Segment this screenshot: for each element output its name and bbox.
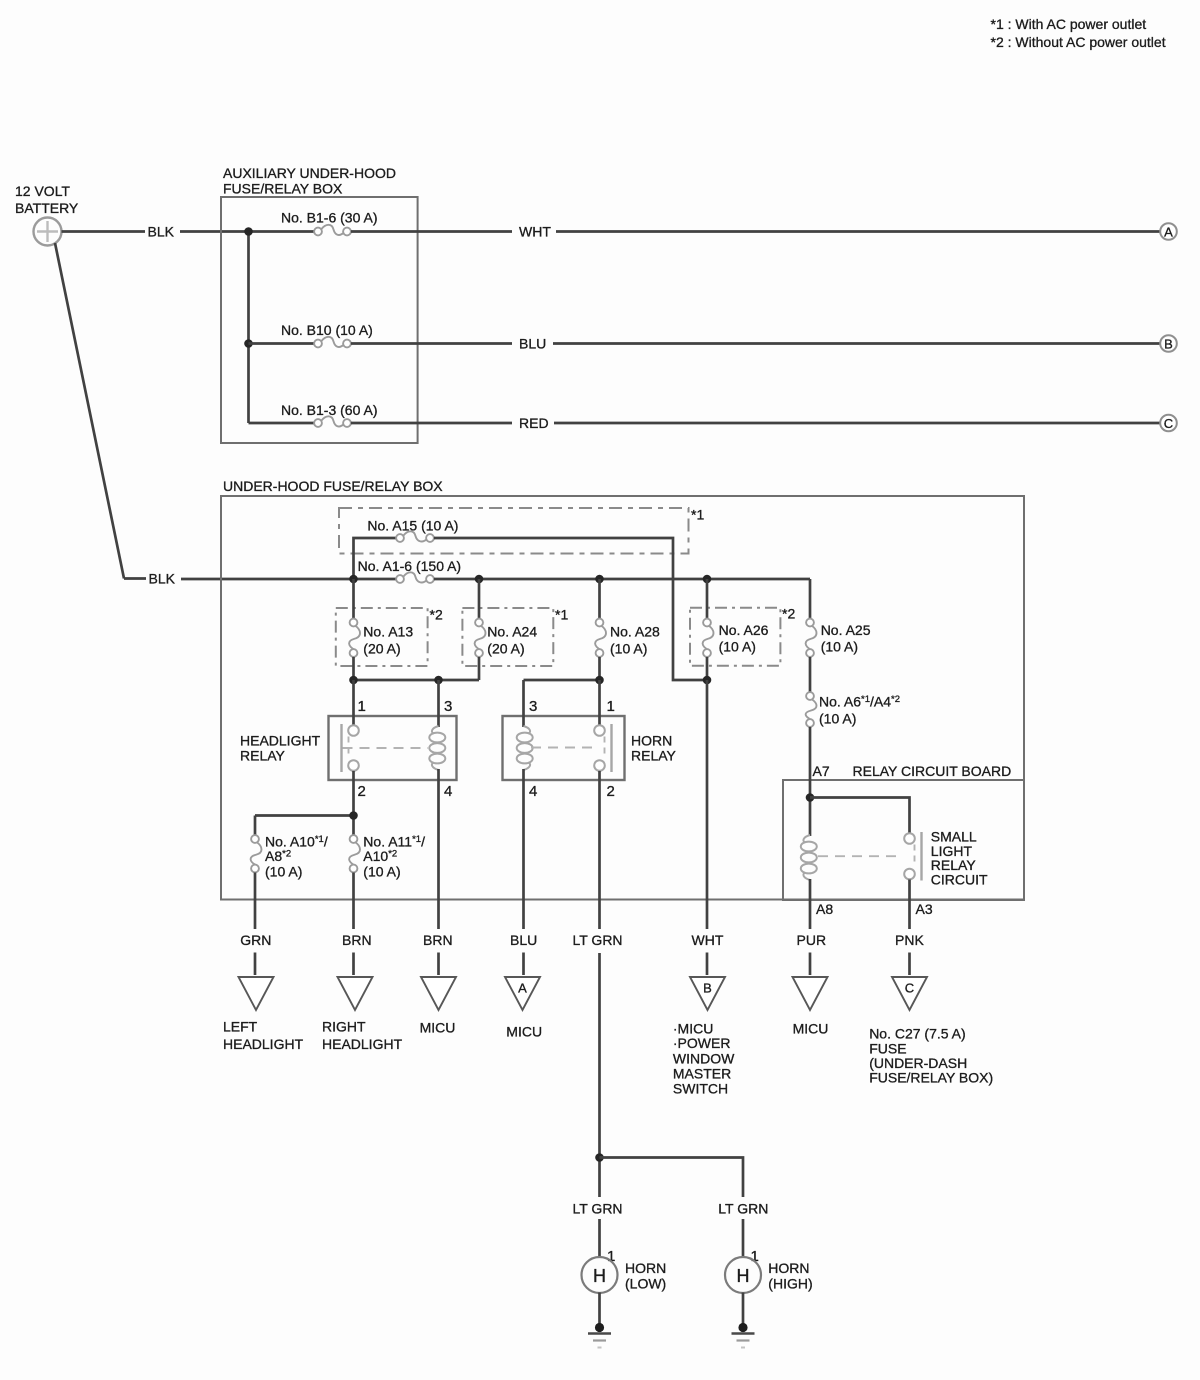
svg-text:*1: *1: [691, 507, 704, 523]
wire fuse A26 down: [706, 657, 709, 680]
fuse No. A1-6 (150 A): [396, 572, 434, 583]
svg-text:BLU: BLU: [510, 932, 537, 948]
connector arrow right headlight: [338, 977, 373, 1010]
wire horn high to ground: [742, 1293, 745, 1328]
wire A26 junction to WHT: [706, 680, 709, 929]
svg-text:HORN: HORN: [768, 1260, 809, 1276]
horn relay contact: [594, 724, 611, 772]
horn relay coil: [517, 726, 533, 770]
svg-text:No. B10 (10 A): No. B10 (10 A): [281, 322, 373, 338]
wire pin1 horn relay: [598, 680, 601, 726]
wire fuse A24 down: [478, 657, 481, 680]
wire fuse A25 to fuse A6/A4: [809, 657, 812, 692]
wire diagonal to BLK label: [124, 577, 146, 580]
svg-text:B: B: [703, 981, 712, 996]
headlight relay contact: [342, 724, 359, 772]
aux box bus wire: [247, 232, 250, 424]
wire horn coil link: [524, 679, 600, 682]
wire branch down to fuse A10: [254, 816, 257, 836]
svg-text:·POWER: ·POWER: [673, 1035, 731, 1051]
svg-text:LEFT: LEFT: [223, 1019, 258, 1035]
svg-text:RELAY: RELAY: [631, 748, 677, 764]
svg-text:No. A26: No. A26: [719, 622, 769, 638]
ground horn low: [595, 1323, 604, 1332]
svg-text:A8: A8: [816, 901, 833, 917]
wire fuse A13 to relay: [352, 657, 355, 680]
connector A: [1160, 223, 1177, 240]
svg-text:MICU: MICU: [420, 1020, 456, 1036]
junction dot bus A26: [703, 575, 712, 584]
junction dot board: [806, 793, 815, 802]
junction dot A28 bottom: [595, 676, 604, 685]
wire pin3 headlight relay: [437, 680, 440, 727]
wire PUR stub: [809, 953, 812, 976]
svg-text:PUR: PUR: [797, 932, 827, 948]
wire BLK to fuse B1-6: [180, 230, 314, 233]
svg-text:4: 4: [444, 783, 452, 800]
wire to horn high: [742, 1219, 745, 1257]
svg-text:RELAY CIRCUIT BOARD: RELAY CIRCUIT BOARD: [853, 763, 1012, 779]
svg-text:4: 4: [529, 783, 537, 800]
svg-text:No. A24: No. A24: [487, 624, 537, 640]
svg-text:BLK: BLK: [148, 224, 175, 240]
svg-text:HEADLIGHT: HEADLIGHT: [322, 1036, 403, 1052]
svg-text:3: 3: [444, 698, 452, 715]
wire main bus: [434, 578, 810, 581]
fuse No. A15 (10 A): [396, 531, 434, 542]
headlight relay box: [329, 716, 457, 780]
svg-text:FUSE/RELAY BOX): FUSE/RELAY BOX): [869, 1069, 993, 1085]
svg-text:A3: A3: [916, 901, 933, 917]
fuse No. A28 (10 A): [595, 619, 606, 657]
svg-text:B: B: [1164, 336, 1173, 351]
wire RED to connector C: [554, 422, 1160, 425]
wire bus to fuse B1-3: [249, 422, 315, 425]
connector arrow left headlight: [239, 977, 274, 1010]
svg-text:WHT: WHT: [519, 224, 551, 240]
svg-text:(20 A): (20 A): [487, 640, 524, 656]
wire fuse B1-6 to WHT: [351, 230, 512, 233]
fuse No. A25 (10 A): [806, 619, 817, 657]
svg-text:2: 2: [358, 783, 366, 800]
wire A7 into board: [809, 727, 812, 836]
svg-text:LT GRN: LT GRN: [718, 1201, 768, 1217]
wire BLK bus segment: [181, 578, 396, 581]
svg-text:RED: RED: [519, 415, 549, 431]
connector arrow C: [892, 977, 927, 1010]
wire fuse B10 to BLU: [351, 342, 512, 345]
wire board branch to contact: [810, 798, 910, 834]
svg-text:No. A25: No. A25: [821, 622, 871, 638]
svg-text:BATTERY: BATTERY: [15, 200, 79, 216]
wire WHT to connector A: [556, 230, 1160, 233]
svg-text:C: C: [905, 981, 914, 996]
wire fuse B1-3 to RED: [351, 422, 512, 425]
svg-text:(HIGH): (HIGH): [768, 1275, 812, 1291]
wire bus to fuse A13: [352, 579, 355, 619]
horn relay box: [503, 716, 625, 780]
svg-text:A: A: [518, 981, 527, 996]
svg-text:FUSE: FUSE: [869, 1041, 906, 1057]
junction dot pin2 branch: [349, 811, 358, 820]
junction dot bus A28: [595, 575, 604, 584]
small light relay dashed actuator: [818, 855, 903, 857]
junction dot relay pin3: [434, 676, 443, 685]
svg-text:No. B1-6 (30 A): No. B1-6 (30 A): [281, 210, 378, 226]
wire A13 to A24 lower link: [354, 679, 480, 682]
svg-text:RIGHT: RIGHT: [322, 1019, 366, 1035]
horn low: [582, 1257, 618, 1293]
svg-text:HEADLIGHT: HEADLIGHT: [240, 733, 321, 749]
wire pin3 horn relay: [522, 680, 525, 727]
svg-text:A7: A7: [813, 763, 830, 779]
wire pin2 headlight relay: [352, 771, 355, 835]
ground horn high: [738, 1323, 747, 1332]
connector arrow micu brn: [421, 977, 456, 1010]
fuse No. B1-6 (30 A): [314, 225, 351, 236]
wire bus to fuse A28: [598, 579, 601, 619]
junction dot bus A13: [349, 575, 358, 584]
connector arrow B: [690, 977, 725, 1010]
svg-text:MASTER: MASTER: [673, 1066, 731, 1082]
svg-text:BRN: BRN: [342, 932, 372, 948]
svg-text:C: C: [1164, 416, 1173, 431]
auxiliary under-hood fuse/relay box: [221, 197, 418, 443]
fuse No. A11*1/A10*2 (10 A): [349, 835, 360, 872]
junction dot A26 bottom: [703, 676, 712, 685]
svg-text:(20 A): (20 A): [363, 640, 400, 656]
small light relay contact: [904, 832, 921, 881]
svg-text:No. A13: No. A13: [363, 624, 413, 640]
horn relay dashed actuator: [531, 747, 596, 749]
battery 12V positive terminal: [34, 218, 62, 246]
svg-text:1: 1: [358, 698, 366, 715]
horn high: [725, 1257, 761, 1293]
wire bus corner to fuse A25: [809, 579, 812, 619]
headlight relay coil: [429, 726, 445, 770]
svg-text:H: H: [593, 1266, 606, 1286]
wire GRN stub: [254, 953, 257, 976]
svg-text:(10 A): (10 A): [821, 639, 858, 655]
wire fuse A11 to BRN: [352, 873, 355, 930]
svg-text:LT GRN: LT GRN: [573, 932, 623, 948]
svg-text:(LOW): (LOW): [625, 1275, 666, 1291]
svg-text:UNDER-HOOD FUSE/RELAY BOX: UNDER-HOOD FUSE/RELAY BOX: [223, 478, 443, 494]
svg-text:No. A28: No. A28: [610, 624, 660, 640]
svg-text:SWITCH: SWITCH: [673, 1080, 728, 1096]
wire bus to fuse B10: [249, 342, 315, 345]
svg-text:(10 A): (10 A): [265, 864, 302, 880]
svg-text:RELAY: RELAY: [240, 748, 286, 764]
svg-text:HORN: HORN: [631, 733, 672, 749]
svg-text:MICU: MICU: [793, 1021, 829, 1037]
connector C: [1160, 415, 1177, 432]
svg-text:HEADLIGHT: HEADLIGHT: [223, 1036, 304, 1052]
svg-text:*2: *2: [430, 607, 443, 623]
svg-text:(10 A): (10 A): [819, 711, 856, 727]
wire fuse A10 to GRN: [254, 873, 257, 930]
svg-text:WINDOW: WINDOW: [673, 1051, 735, 1067]
wire fuse A28 down: [598, 657, 601, 680]
svg-text:BRN: BRN: [423, 932, 453, 948]
svg-text:12 VOLT: 12 VOLT: [15, 183, 70, 199]
wire pin2 horn relay: [598, 771, 601, 929]
svg-text:*2 : Without AC power outlet: *2 : Without AC power outlet: [991, 34, 1166, 50]
dashed box *2 for fuse A26: [690, 608, 780, 666]
svg-text:LT GRN: LT GRN: [573, 1201, 623, 1217]
small light relay coil: [801, 835, 817, 880]
fuse No. A13 (20 A): [349, 619, 360, 657]
junction dot relay pin1: [349, 676, 358, 685]
headlight relay dashed actuator: [343, 747, 429, 749]
svg-text:GRN: GRN: [240, 932, 271, 948]
wire A15 branch left: [354, 538, 397, 579]
svg-text:*1: *1: [555, 607, 568, 623]
svg-text:*1 : With AC power outlet: *1 : With AC power outlet: [991, 16, 1147, 32]
svg-text:FUSE/RELAY BOX: FUSE/RELAY BOX: [223, 181, 343, 197]
dashed box *1 for fuse A24: [462, 608, 553, 666]
svg-text:A: A: [1164, 224, 1173, 239]
svg-text:2: 2: [607, 783, 615, 800]
wire pin4 horn relay: [522, 769, 525, 929]
wire bus to fuse A24: [478, 579, 481, 619]
fuse No. B1-3 (60 A): [314, 416, 351, 427]
junction dot bus row2: [244, 339, 253, 348]
wire bus to fuse A26: [706, 579, 709, 619]
svg-text:No. A6*1/A4*2: No. A6*1/A4*2: [819, 694, 900, 710]
svg-text:*2: *2: [782, 606, 795, 622]
wire battery to BLK: [62, 230, 146, 233]
svg-text:BLK: BLK: [149, 571, 176, 587]
wire BRN stub: [352, 953, 355, 976]
fuse No. A24 (20 A): [475, 619, 486, 657]
fuse No. B10 (10 A): [314, 337, 351, 348]
wire PNK stub: [908, 953, 911, 976]
wire BLU stub: [522, 953, 525, 976]
wire pin2 branch to A10: [255, 814, 354, 817]
svg-text:MICU: MICU: [506, 1024, 542, 1040]
junction dot bus A24: [475, 575, 484, 584]
wire pin4 headlight relay: [437, 769, 440, 929]
svg-text:HORN: HORN: [625, 1260, 666, 1276]
under-hood fuse/relay box: [221, 496, 1024, 900]
svg-text:PNK: PNK: [895, 932, 924, 948]
svg-text:CIRCUIT: CIRCUIT: [931, 871, 988, 887]
svg-text:1: 1: [607, 698, 615, 715]
wire A15 branch right: [434, 538, 703, 680]
wire coil to A8: [809, 879, 812, 929]
junction dot bus row1: [244, 227, 253, 236]
wire contact to A3: [908, 880, 911, 930]
svg-text:(10 A): (10 A): [363, 864, 400, 880]
wire WHT stub: [706, 953, 709, 976]
relay circuit board box: [783, 780, 1024, 900]
connector B: [1160, 335, 1177, 352]
wire horn low to ground: [598, 1293, 601, 1328]
svg-text:(10 A): (10 A): [719, 639, 756, 655]
wire BLU to connector B: [553, 342, 1160, 345]
svg-text:3: 3: [529, 698, 537, 715]
dashed box *1 for fuse A15: [339, 508, 689, 554]
wire horn split horizontal: [600, 1158, 744, 1198]
fuse No. A26 (10 A): [703, 619, 714, 657]
connector arrow A micu: [505, 977, 540, 1010]
wire LT GRN down: [598, 953, 601, 1197]
fuse No. A6*1/A4*2 (10 A): [806, 692, 817, 727]
wire BRN micu stub: [437, 953, 440, 976]
svg-text:No. C27 (7.5 A): No. C27 (7.5 A): [869, 1026, 966, 1042]
fuse No. A10*1/A8*2 (10 A): [251, 835, 262, 872]
wire pin1 headlight relay: [352, 680, 355, 726]
svg-text:WHT: WHT: [692, 932, 724, 948]
wire battery diagonal: [55, 243, 124, 579]
connector arrow micu pur: [793, 977, 828, 1010]
svg-text:(10 A): (10 A): [610, 640, 647, 656]
dashed box *2 for fuse A13: [336, 608, 428, 666]
svg-text:AUXILIARY UNDER-HOOD: AUXILIARY UNDER-HOOD: [223, 165, 396, 181]
wire to horn low: [598, 1219, 601, 1257]
svg-text:BLU: BLU: [519, 336, 546, 352]
junction dot horn split: [595, 1153, 604, 1162]
svg-text:H: H: [737, 1266, 750, 1286]
